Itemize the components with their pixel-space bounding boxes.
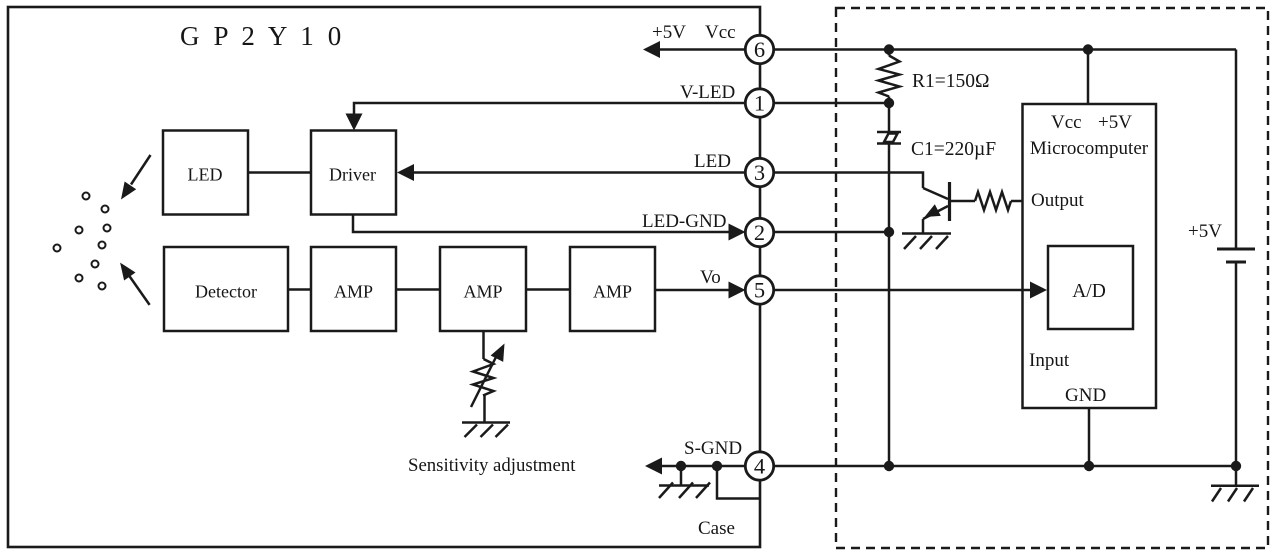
arrowhead Vo into pin5 (729, 282, 746, 299)
pin 4 (745, 452, 773, 480)
svg-text:GND: GND (1065, 385, 1106, 406)
svg-text:AMP: AMP (593, 282, 632, 302)
arrowhead LED into Driver (397, 164, 414, 181)
ground at S-GND (659, 484, 709, 487)
svg-text:Input: Input (1029, 350, 1070, 371)
svg-text:S-GND: S-GND (684, 438, 742, 459)
LED block (163, 131, 248, 215)
pin 1 (745, 89, 773, 117)
pin 2 (745, 218, 773, 246)
svg-text:LED: LED (694, 151, 731, 172)
transistor Q1 collector diagonal (923, 188, 948, 199)
wire LED pin3 left with arrow into Driver (414, 171, 746, 174)
wire V-LED right to R1 node (772, 102, 889, 105)
svg-text:LED-GND: LED-GND (642, 211, 726, 232)
svg-text:Vo: Vo (700, 267, 721, 288)
svg-text:V-LED: V-LED (680, 82, 735, 103)
junction node Vcc/R1 (884, 44, 894, 54)
pin 6 (745, 35, 773, 63)
arrowhead dust upper (121, 182, 136, 200)
VR1 wiper arrow line (471, 355, 497, 407)
arrowhead S-GND left (645, 458, 662, 475)
wire Detector to AMP1 (288, 288, 311, 291)
ground at battery (1211, 484, 1259, 487)
wire LED to Driver (248, 171, 310, 174)
AMP2 block (440, 247, 526, 331)
svg-text:4: 4 (754, 454, 765, 479)
junction node S-GND case (712, 461, 722, 471)
arrowhead V-LED into Driver (346, 114, 363, 131)
ground under transistor (902, 232, 951, 235)
wire C1 top stub (888, 103, 891, 131)
wire S-GND right rail (772, 465, 1236, 468)
arrowhead VR1 wiper (491, 344, 505, 362)
svg-text:3: 3 (754, 160, 765, 185)
microcomputer U1 box (1023, 104, 1157, 408)
A/D converter box (1048, 246, 1133, 329)
arrowhead dust lower (120, 263, 135, 281)
junction node S-GND/C1 (884, 461, 894, 471)
resistor VR1 sensitivity zigzag (473, 359, 494, 396)
dust arrow upper line (131, 155, 151, 185)
wire base resistor lead (951, 200, 975, 203)
svg-text:G P 2 Y 1 0: G P 2 Y 1 0 (180, 21, 345, 51)
Driver block (311, 131, 396, 215)
svg-text:6: 6 (754, 37, 765, 62)
wire resistor to Output pin (1011, 200, 1023, 203)
arrowhead LED-GND into pin2 (729, 224, 746, 241)
junction node Vcc/micro (1083, 44, 1093, 54)
arrowhead Q1 emitter (925, 204, 941, 217)
pin 5 (745, 276, 773, 304)
svg-text:LED: LED (188, 165, 223, 185)
AMP1 block (311, 247, 396, 331)
svg-text:Driver: Driver (329, 165, 376, 185)
wire AMP2 to sensitivity resistor (482, 331, 485, 359)
wire microcomputer GND to rail (1088, 408, 1091, 466)
resistor base zigzag (975, 192, 1011, 210)
svg-text:2: 2 (754, 220, 765, 245)
capacitor C1 plates (877, 131, 901, 134)
junction node LED-GND/C1 (884, 227, 894, 237)
svg-text:A/D: A/D (1072, 281, 1106, 302)
wire V-LED left to driver corner (354, 103, 746, 114)
wire Vo pin5 to A/D (772, 289, 1032, 292)
wire LED-GND right of pin2 to node (772, 231, 889, 234)
svg-text:+5V: +5V (652, 22, 686, 43)
dust arrow lower line (129, 276, 150, 305)
pin circles (745, 35, 773, 480)
svg-text:Sensitivity adjustment: Sensitivity adjustment (408, 455, 576, 476)
svg-text:5: 5 (754, 278, 765, 303)
microcomputer dashed enclosure (836, 8, 1268, 548)
svg-text:C1=220µF: C1=220µF (911, 139, 996, 160)
wire R1 top stub (888, 50, 891, 56)
transistor Q1 emitter diagonal (923, 206, 948, 219)
wire S-GND ground stub (680, 466, 683, 485)
arrowhead Vo into A/D (1030, 282, 1047, 299)
wire battery negative to rail (1235, 262, 1238, 466)
junction node S-GND/battery (1231, 461, 1241, 471)
wire VR1 to ground (483, 396, 486, 423)
wire battery ground stub (1235, 466, 1238, 486)
wire C1 bottom branch down to S-GND rail (888, 144, 891, 467)
wire AMP1 to AMP2 (396, 288, 440, 291)
wire LED pin3 right to transistor collector (772, 173, 923, 189)
battery B1 (1217, 248, 1255, 251)
wire Vcc stub to microcomputer (1087, 50, 1090, 105)
svg-text:Detector: Detector (195, 282, 257, 302)
pin 3 (745, 158, 773, 186)
svg-text:Case: Case (698, 518, 735, 539)
wire case connection (717, 466, 760, 499)
transistor Q1 emitter lead (922, 219, 925, 234)
junction node S-GND ground (676, 461, 686, 471)
svg-text:R1=150Ω: R1=150Ω (912, 71, 990, 92)
junction node S-GND/micro (1084, 461, 1094, 471)
svg-text:Vcc: Vcc (1051, 112, 1082, 133)
wire Vo AMP3 to pin5 (655, 289, 730, 292)
wire pin6 Vcc rail to right (772, 48, 1236, 51)
sensor outline GP2Y10 box (8, 7, 760, 547)
dust particles (54, 193, 111, 290)
wire R1 bottom stub (888, 97, 891, 104)
svg-text:Microcomputer: Microcomputer (1030, 138, 1149, 159)
arrowhead +5V left (643, 41, 660, 58)
wire AMP2 to AMP3 (526, 288, 570, 291)
svg-text:Output: Output (1031, 190, 1085, 211)
junction node R1/V-LED (884, 98, 894, 108)
svg-text:1: 1 (754, 91, 765, 116)
wire pin6 Vcc to left arrow (658, 48, 746, 51)
ground at sensitivity (462, 421, 510, 424)
svg-text:AMP: AMP (463, 282, 502, 302)
Detector block (164, 247, 288, 331)
transistor Q1 bar (948, 182, 951, 221)
wire S-GND left with arrow (662, 465, 746, 468)
svg-text:Vcc: Vcc (705, 22, 736, 43)
wire Vcc rail drop to battery (1235, 50, 1238, 250)
svg-text:+5V: +5V (1188, 221, 1222, 242)
resistor R1 zigzag (879, 56, 900, 97)
wire LED-GND from Driver bottom (353, 215, 730, 233)
svg-text:+5V: +5V (1098, 112, 1132, 133)
svg-text:AMP: AMP (334, 282, 373, 302)
AMP3 block (570, 247, 655, 331)
